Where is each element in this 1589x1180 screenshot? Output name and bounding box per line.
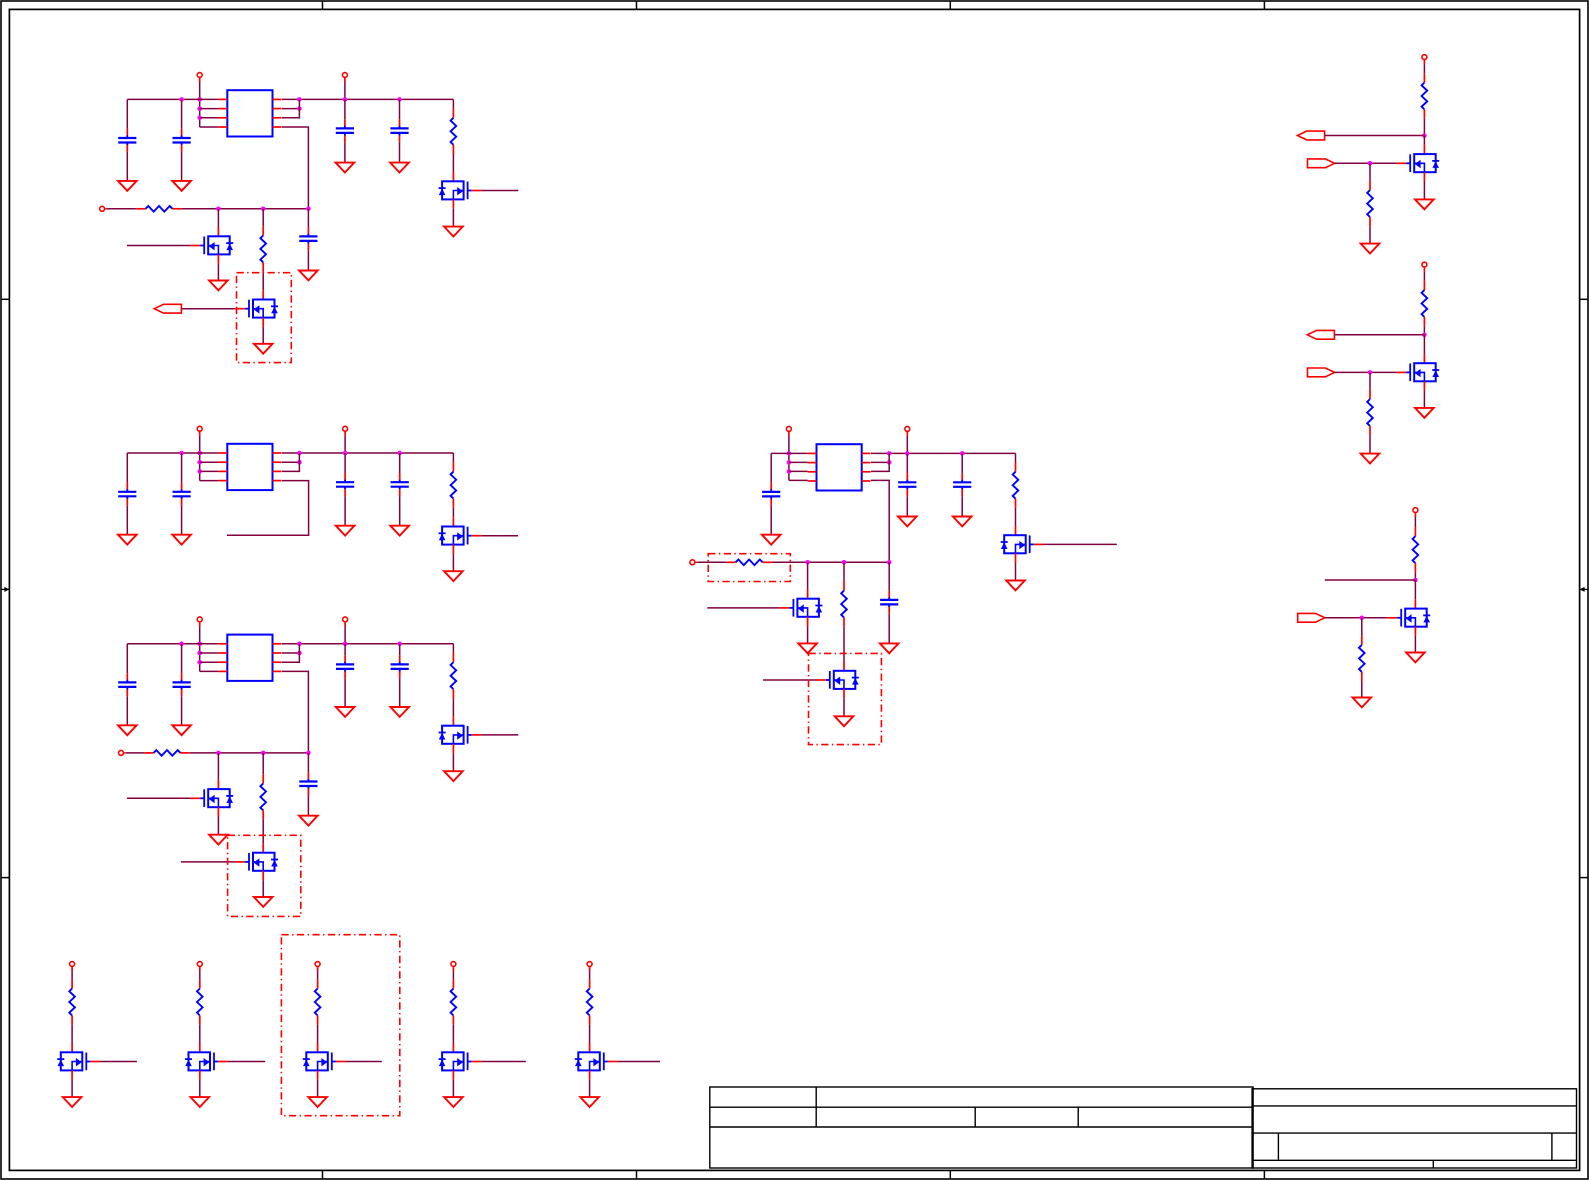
wire B power feed [199, 436, 201, 481]
wire A C6 drop [307, 209, 309, 227]
ground GND Q2 [254, 344, 273, 354]
wire A row3 stub [200, 117, 219, 119]
IC U3 [218, 635, 281, 681]
wire R3 stub wire [1325, 579, 1416, 581]
junction C row3 [197, 660, 202, 665]
resistor R14 [1367, 390, 1373, 435]
wire D Q1 source [807, 626, 809, 643]
wire D pin2R [871, 461, 889, 463]
wire R2 node to Q [1423, 335, 1425, 354]
wire D C6 fall [888, 614, 890, 644]
ground GND C6 [299, 271, 318, 281]
wire D C4 fall [906, 496, 908, 516]
port arrow OUT_R1 [1298, 131, 1325, 140]
wire C Q1 drop [217, 753, 219, 780]
IC U4 [808, 444, 871, 490]
junction C node C6 [306, 751, 311, 756]
ground GND C16 [762, 535, 781, 545]
transistor Q2 [235, 290, 278, 327]
frame centre arrow left [1, 587, 9, 592]
ground GND Q6 [209, 835, 228, 845]
resistor R23 [315, 979, 321, 1024]
frame zone ticks top [323, 1, 1265, 9]
ground GND Q9 [798, 643, 817, 653]
transistor Q6 [190, 780, 233, 817]
junction R2 gate node [1368, 370, 1373, 375]
wire A pin1R to bus [282, 98, 454, 100]
wire B pin1R to bus [282, 452, 454, 454]
wire B C5 riser [399, 453, 401, 473]
wire C R3 drop [262, 753, 264, 774]
power port VIN_C [197, 617, 202, 626]
wire R3 pulldown fall [1361, 681, 1363, 697]
wire D C5 fall [961, 496, 963, 516]
junction R1 node [1422, 133, 1427, 138]
capacitor C1 [118, 129, 136, 152]
wire D input bus [772, 561, 889, 563]
dashed highlight box A Q2 box [237, 273, 292, 363]
wire R2 out wire [1334, 334, 1424, 336]
wire A Q2 gate wire [181, 308, 235, 310]
junction D row3 [787, 469, 792, 474]
wire R1 pulldown drop [1369, 163, 1371, 181]
wire cell5 source [589, 1080, 591, 1097]
transistor Q8 [1001, 526, 1044, 563]
wire B row2 stub [200, 461, 219, 463]
wire D power feed [788, 436, 790, 481]
transistor Q11 [1396, 145, 1439, 182]
wire D Q1 drop [807, 562, 809, 589]
wire D row1 left [771, 452, 807, 454]
wire B C1 riser [126, 453, 128, 483]
wire B C2 riser [181, 453, 183, 483]
resistor R25 [587, 979, 593, 1024]
transistor Q22 [185, 1043, 228, 1080]
wire C C4 riser [344, 644, 346, 655]
wire D R riser [1015, 453, 1017, 462]
resistor R11 [1422, 73, 1428, 118]
wire D row3 stub [789, 470, 808, 472]
wire A input bus [182, 208, 309, 210]
wire C C1 riser [126, 644, 128, 673]
wire C Q1 gate wire [127, 797, 190, 799]
wire R3 feed [1414, 517, 1416, 527]
wire D VOUT drop [906, 436, 908, 454]
power port VIN_D [786, 426, 791, 435]
ground GND Q22 [191, 1097, 210, 1107]
port arrow IN_R1 [1308, 159, 1335, 168]
wire R1 pulldown fall [1369, 226, 1371, 243]
wire A pin2R [282, 108, 300, 110]
wire cell2 res to Q [199, 1025, 201, 1043]
resistor R15 [1413, 527, 1419, 572]
wire cell5 gate lead [618, 1061, 660, 1063]
junction A C4 tap [343, 97, 348, 102]
ground GND R16 [1353, 698, 1372, 708]
wire A row2 stub [200, 108, 219, 110]
wire cell4 res to Q [452, 1025, 454, 1043]
wire A C6 fall [307, 250, 309, 270]
resistor R21 [69, 979, 75, 1024]
frame zone ticks right [1580, 299, 1588, 877]
wire B C4 riser [344, 453, 346, 473]
wire C input bus [190, 752, 309, 754]
wire R1 node to Q [1423, 136, 1425, 145]
wire B C2 fall [181, 506, 183, 535]
resistor R10 [841, 581, 847, 626]
ground GND C19 [880, 643, 899, 653]
port arrow IN_R3 [1298, 613, 1325, 622]
wire D R to Q [1015, 508, 1017, 526]
wire D input lead [697, 561, 726, 563]
ground GND Q23 [308, 1097, 327, 1107]
wire D pin4R over [871, 480, 889, 562]
capacitor C15 [299, 772, 317, 795]
ground GND C17 [898, 517, 917, 527]
resistor R22 [197, 979, 203, 1024]
wire C C5 fall [399, 678, 401, 707]
junction D row2 [787, 460, 792, 465]
junction R2 node [1422, 333, 1427, 338]
wire B Q gate lead [481, 535, 518, 537]
power port VOUT_C [343, 617, 348, 626]
wire A VOUT drop [344, 82, 346, 99]
dashed highlight box D Q2 box [809, 653, 882, 744]
wire R3 gate wire [1325, 617, 1388, 619]
wire cell4 gate lead [481, 1061, 525, 1063]
junction A bus row1 [297, 97, 302, 102]
transistor Q7 [235, 843, 278, 880]
wire A C4 fall [344, 142, 346, 162]
wire C Q2 gate wire [181, 861, 235, 863]
input port EN_D [690, 560, 697, 565]
ground GND C7 [118, 535, 137, 545]
junction B C2 tap [179, 451, 184, 456]
junction D bus row1 [887, 451, 892, 456]
wire R3 pulldown drop [1361, 618, 1363, 636]
wire R1 out wire [1325, 135, 1425, 137]
frame zone ticks left [1, 299, 9, 877]
junction C C2 tap [179, 642, 184, 647]
wire cell3 feed [317, 971, 319, 979]
wire D row2 stub [789, 461, 808, 463]
wire C row1 left [127, 643, 218, 645]
ground GND Q8 [1006, 581, 1025, 591]
ground GND C9 [336, 526, 355, 536]
wire D R3 drop [843, 562, 845, 581]
wire R2 gate wire [1335, 371, 1397, 373]
ground GND Q12 [1415, 408, 1434, 418]
wire C Q gate lead [481, 734, 518, 736]
wire A R3 drop [262, 209, 264, 226]
wire R3 res to node [1414, 572, 1416, 580]
junction D bus row2 [887, 460, 892, 465]
transistor Q12 [1396, 354, 1439, 391]
wire D C5 riser [961, 453, 963, 473]
ground GND Q24 [444, 1097, 463, 1107]
port arrow IN_R2 [1308, 368, 1335, 377]
wire B Q source [452, 554, 454, 571]
wire D Q2 gate wire [763, 679, 816, 681]
ground GND Q13 [1406, 653, 1425, 663]
ground GND C5 [390, 163, 409, 173]
capacitor C6 [299, 227, 317, 250]
resistor R12 [1367, 181, 1373, 226]
input port EN_C [119, 750, 126, 755]
wire C Q2 source [262, 880, 264, 897]
wire C R3 to Q2 [262, 820, 264, 844]
wire cell1 res to Q [71, 1025, 73, 1043]
power port VOUT_D [905, 426, 910, 435]
ground GND C12 [172, 725, 191, 735]
wire A R3 to Q2 [262, 272, 264, 291]
ground GND Q7 [254, 897, 273, 907]
junction A row2 [197, 106, 202, 111]
ground GND Q10 [835, 716, 854, 726]
wire D pin1R to bus [871, 452, 1016, 454]
junction A node C6 [306, 207, 311, 212]
wire A R2 riser [452, 99, 454, 108]
junction D row1 [787, 451, 792, 456]
wire cell4 source [452, 1080, 454, 1097]
wire A C5 riser [399, 99, 401, 119]
junction C row1 [197, 642, 202, 647]
junction D C4 tap [905, 451, 910, 456]
wire cell4 feed [452, 971, 454, 979]
transistor Q4 [439, 517, 482, 554]
title block left table [710, 1087, 1253, 1168]
wire B R riser [452, 453, 454, 462]
wire cell2 feed [199, 971, 201, 979]
wire D C1 fall [770, 506, 772, 535]
transistor Q25 [575, 1043, 618, 1080]
wire D Q source [1015, 563, 1017, 581]
capacitor C14 [391, 655, 409, 678]
junction A row3 [197, 116, 202, 121]
junction R1 gate node [1368, 161, 1373, 166]
wire C C6 drop [307, 753, 309, 772]
wire C bus drop [282, 644, 300, 662]
frame centre arrow right [1580, 587, 1588, 592]
wire C R to Q [452, 698, 454, 716]
power port VOUT_A [342, 73, 347, 82]
wire A bus drop [282, 99, 300, 117]
junction A bus row2 [297, 106, 302, 111]
junction C node Q1 [216, 751, 221, 756]
power port V_B4 [451, 962, 456, 971]
ground GND Q5 [444, 771, 463, 781]
power port V_B1 [70, 962, 75, 971]
wire B VOUT drop [344, 436, 346, 453]
wire C C4 fall [344, 678, 346, 707]
wire D C4 riser [906, 453, 908, 473]
resistor R16 [1359, 636, 1365, 681]
ground GND Q3 [444, 227, 463, 237]
ground GND R12 [1361, 244, 1380, 254]
junction B bus row2 [297, 460, 302, 465]
junction A row1 [197, 97, 202, 102]
wire B C4 fall [344, 496, 346, 526]
ground GND C15 [299, 816, 318, 826]
ground GND C1 [118, 181, 137, 191]
wire cell5 res to Q [589, 1025, 591, 1043]
wire C C1 fall [126, 696, 128, 725]
capacitor C8 [173, 483, 191, 506]
wire A Q1 gate wire [127, 245, 190, 247]
wire A row1 left [127, 98, 218, 100]
capacitor C11 [118, 673, 136, 696]
wire cell3 gate lead [346, 1061, 382, 1063]
wire A C5 fall [399, 142, 401, 162]
junction B C5 tap [397, 451, 402, 456]
frame zone ticks bottom [323, 1170, 1265, 1179]
power port VIN_A [197, 73, 202, 82]
wire R1 feed [1423, 64, 1425, 73]
resistor R8 [1013, 463, 1019, 508]
wire C C2 fall [181, 696, 183, 725]
junction A node R3 [261, 207, 266, 212]
resistor R7 [260, 774, 266, 819]
ground GND C13 [336, 707, 355, 717]
junction B row3 [197, 469, 202, 474]
ground GND C11 [118, 725, 137, 735]
wire B pin4R L wire [227, 481, 309, 536]
ground GND Q21 [63, 1097, 82, 1107]
wire C pin1R to bus [282, 643, 454, 645]
power port V_R3 [1413, 508, 1418, 517]
port arrow CTRL_A [154, 304, 181, 313]
ground GND C18 [953, 517, 972, 527]
power port V_B2 [197, 962, 202, 971]
wire cell3 source [317, 1080, 319, 1097]
wire cell1 gate lead [100, 1061, 137, 1063]
power port V_B5 [587, 962, 592, 971]
wire cell1 source [71, 1080, 73, 1097]
wire R3 node to Q [1414, 580, 1416, 599]
capacitor C17 [898, 473, 916, 496]
ground GND C2 [172, 181, 191, 191]
wire C C6 fall [307, 795, 309, 815]
capacitor C18 [953, 473, 971, 496]
ground GND C4 [336, 163, 355, 173]
wire A Q2 source [262, 327, 264, 344]
resistor R9 [726, 560, 771, 566]
capacitor C16 [762, 483, 780, 506]
wire R3 Q source [1414, 636, 1416, 653]
ground GND C14 [390, 707, 409, 717]
wire D R3 to Q2 [843, 627, 845, 662]
wire C C2 riser [181, 644, 183, 673]
wire C pin4R over [282, 671, 309, 753]
junction C row2 [197, 651, 202, 656]
wire cell2 gate lead [228, 1061, 265, 1063]
wire A C1 riser [126, 99, 128, 128]
resistor R6 [144, 750, 189, 756]
resistor R1 [136, 206, 181, 212]
wire B R to Q [452, 508, 454, 517]
wire A Q1 drop [217, 209, 219, 227]
junction D node R3 [842, 560, 847, 565]
wire C pin2R [282, 652, 300, 654]
wire C row3 stub [200, 661, 219, 663]
wire C Q source [452, 753, 454, 771]
wire A power feed [199, 82, 201, 127]
transistor Q3 [439, 172, 482, 209]
junction B C4 tap [343, 451, 348, 456]
junction C C5 tap [397, 642, 402, 647]
resistor R2 [451, 109, 457, 154]
wire B bus drop [282, 453, 300, 471]
power port V_B3 [315, 962, 320, 971]
wire C input lead [126, 752, 144, 754]
ground GND Q1 [209, 281, 228, 291]
wire cell2 source [199, 1080, 201, 1097]
resistor R4 [451, 462, 457, 507]
wire A input lead [107, 208, 136, 210]
wire A row4 stub [200, 126, 219, 128]
junction D node C6 [887, 560, 892, 565]
capacitor C10 [391, 473, 409, 496]
resistor R13 [1422, 281, 1428, 326]
port arrow OUT_R2 [1307, 330, 1334, 339]
IC U1 [218, 90, 281, 136]
ground GND C8 [172, 535, 191, 545]
junction A node Q1 [216, 207, 221, 212]
wire C C5 riser [399, 644, 401, 655]
wire B row4 stub [200, 480, 219, 482]
capacitor C7 [118, 483, 136, 506]
junction B row1 [197, 451, 202, 456]
title block right table [1252, 1089, 1576, 1168]
input port EN_A [100, 206, 107, 211]
wire C Q1 source [217, 817, 219, 835]
wire R1 Q source [1423, 182, 1425, 200]
dashed highlight box D R9 box [708, 554, 790, 582]
power port V_R2 [1422, 262, 1427, 271]
wire cell1 feed [71, 971, 73, 979]
wire R2 Q source [1423, 391, 1425, 408]
wire D row4 stub [789, 479, 808, 481]
wire R2 feed [1423, 272, 1425, 281]
wire A R2 to Q3 [452, 154, 454, 172]
ground GND Q11 [1415, 199, 1434, 209]
junction C C4 tap [343, 642, 348, 647]
wire B C1 fall [126, 506, 128, 535]
wire R1 gate wire [1335, 162, 1397, 164]
dashed highlight box C Q2 box [228, 835, 301, 916]
junction B bus row1 [297, 451, 302, 456]
capacitor C13 [336, 655, 354, 678]
capacitor C4 [336, 119, 354, 142]
wire D Q1 gate wire [707, 607, 779, 609]
junction C bus row1 [297, 642, 302, 647]
ground GND R14 [1361, 454, 1380, 464]
junction R3 gate node [1360, 616, 1365, 621]
wire C R riser [452, 644, 454, 653]
wire B row3 stub [200, 470, 219, 472]
IC U2 [218, 444, 281, 490]
transistor Q21 [57, 1043, 100, 1080]
resistor R3 [260, 226, 266, 271]
junction C node R3 [261, 751, 266, 756]
wire D C1 riser [770, 453, 772, 482]
wire A C2 fall [181, 152, 183, 181]
capacitor C19 [880, 591, 898, 614]
wire cell3 res to Q [317, 1025, 319, 1043]
wire B row1 left [127, 452, 218, 454]
wire D bus drop [871, 453, 889, 471]
junction D C5 tap [960, 451, 965, 456]
